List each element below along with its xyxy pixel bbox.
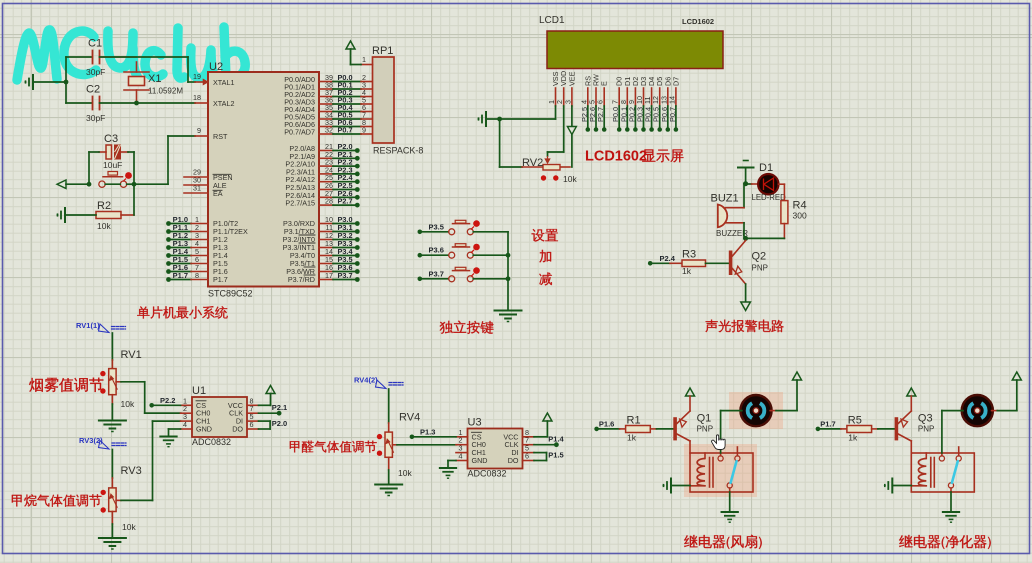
label 减 <box>539 272 552 285</box>
mouse cursor <box>712 435 726 450</box>
svg-text:4: 4 <box>459 452 463 461</box>
svg-text:BUZ1: BUZ1 <box>711 193 739 205</box>
label methane adjust <box>12 495 22 507</box>
resistor R3 1k <box>682 260 706 267</box>
wire <box>99 151 106 153</box>
label 设置 <box>532 229 545 242</box>
node button bus junction 1 <box>506 253 511 258</box>
svg-text:P1.3: P1.3 <box>420 427 435 436</box>
wire <box>783 224 785 239</box>
svg-text:Q1: Q1 <box>697 413 712 425</box>
ground <box>99 537 126 539</box>
ground <box>375 484 402 486</box>
power VCC arrow <box>907 388 916 396</box>
transistor Q2 PNP <box>729 251 733 276</box>
svg-text:14: 14 <box>667 96 676 104</box>
power VCC arrow <box>793 372 802 380</box>
svg-text:RV2: RV2 <box>522 157 543 169</box>
ground <box>485 112 487 126</box>
svg-text:6: 6 <box>250 420 254 429</box>
svg-text:RV1(1): RV1(1) <box>76 321 100 330</box>
relay contact common <box>939 456 944 461</box>
wire <box>729 492 731 511</box>
svg-text:17: 17 <box>325 271 333 280</box>
pin 19 XTAL1 <box>195 81 208 83</box>
wire <box>111 333 113 360</box>
ground <box>670 479 672 493</box>
svg-text:RV1: RV1 <box>121 349 142 361</box>
wire DI DO tie <box>259 420 271 422</box>
relay contact NO <box>735 456 740 461</box>
pin 18 XTAL2 <box>195 102 208 104</box>
node P2.5 terminal <box>586 127 591 132</box>
node P0.2 terminal <box>633 127 638 132</box>
resistor R5 1k <box>820 428 841 430</box>
svg-text:19: 19 <box>193 72 201 81</box>
transistor Q1 PNP <box>673 417 677 440</box>
pin 37 P0.2 wire to RP1 <box>319 96 333 98</box>
svg-text:10k: 10k <box>97 221 111 231</box>
wire <box>473 231 508 233</box>
wire <box>499 119 501 167</box>
label formaldehyde adjust <box>290 441 299 452</box>
svg-text:P2.2: P2.2 <box>160 396 175 405</box>
node P1.2 terminal <box>166 237 171 242</box>
pin 32 P0.7 wire to RP1 <box>319 133 333 135</box>
motor fan 继电器(风扇) <box>740 395 771 426</box>
RV4 red dot 2 <box>377 451 382 456</box>
pin 38 P0.1 wire to RP1 <box>319 88 333 90</box>
wire <box>351 64 362 66</box>
svg-text:C1: C1 <box>88 38 102 50</box>
wire <box>65 82 67 103</box>
node P2.0 terminal <box>319 150 333 152</box>
svg-text:10k: 10k <box>121 399 135 409</box>
svg-text:LCD1602: LCD1602 <box>585 149 647 165</box>
node P0.1 terminal <box>625 127 630 132</box>
svg-text:1k: 1k <box>627 433 637 443</box>
svg-text:GND: GND <box>472 456 488 465</box>
relay lever <box>952 461 958 483</box>
wire <box>116 499 121 501</box>
svg-text:11.0592M: 11.0592M <box>148 87 183 96</box>
wire <box>111 395 113 404</box>
node P1.6 terminal <box>166 269 171 274</box>
ground <box>495 310 522 312</box>
node P1.5 terminal <box>166 261 171 266</box>
potentiometer RV4 10k <box>385 432 392 457</box>
potentiometer RV3 10k <box>109 488 116 512</box>
node P3.3 terminal <box>319 247 333 249</box>
pin 36 P0.3 wire to RP1 <box>319 103 333 105</box>
node P0.6 terminal <box>666 127 671 132</box>
pin 9 RST <box>195 135 208 137</box>
svg-text:P1.7: P1.7 <box>820 419 835 428</box>
label 独立按键 <box>440 321 453 334</box>
node P0.3 terminal <box>641 127 646 132</box>
svg-text:RV4(2): RV4(2) <box>354 376 378 385</box>
svg-text:RST: RST <box>213 132 228 141</box>
svg-text:P1.7: P1.7 <box>173 271 188 280</box>
svg-text:P2.7/A15: P2.7/A15 <box>285 199 315 208</box>
capacitor C3 10uF <box>106 145 112 159</box>
svg-text:10k: 10k <box>563 174 577 184</box>
LCD1 LCD1602 display <box>547 31 723 69</box>
wire motor right <box>992 410 998 412</box>
svg-text:R3: R3 <box>682 249 696 261</box>
pin 1 RP1 <box>361 64 373 66</box>
RV2 red dot 2 <box>553 175 558 180</box>
node P3.5 terminal <box>418 230 423 235</box>
svg-text:STC89C52: STC89C52 <box>208 289 253 299</box>
wire <box>116 381 121 383</box>
svg-text:VEE: VEE <box>567 71 576 86</box>
svg-text:U1: U1 <box>192 385 206 397</box>
pin 34 P0.5 wire to RP1 <box>319 118 333 120</box>
wire <box>726 222 745 224</box>
svg-text:9: 9 <box>362 126 366 135</box>
svg-text:RV4: RV4 <box>399 412 420 424</box>
power bar symbol <box>744 160 749 162</box>
wire <box>105 183 120 185</box>
svg-text:32: 32 <box>325 126 333 135</box>
pin 33 P0.6 wire to RP1 <box>319 126 333 128</box>
label alarm title <box>705 320 717 333</box>
svg-text:DO: DO <box>508 456 519 465</box>
RV2 red dot 1 <box>541 175 546 180</box>
ground <box>943 511 959 513</box>
resistor R2 10k <box>96 212 121 219</box>
svg-text:9: 9 <box>197 126 201 135</box>
svg-text:30pF: 30pF <box>86 67 105 77</box>
wire <box>33 81 66 83</box>
wire <box>111 450 113 479</box>
wire coil to ground <box>892 485 911 487</box>
svg-text:PNP: PNP <box>697 425 713 434</box>
svg-text:ADC0832: ADC0832 <box>468 469 507 479</box>
svg-text:D7: D7 <box>671 77 680 86</box>
svg-text:LCD1: LCD1 <box>539 15 565 26</box>
wire <box>392 444 397 446</box>
ground <box>891 479 893 493</box>
svg-text:X1: X1 <box>148 73 161 85</box>
svg-text:C2: C2 <box>86 84 100 96</box>
ADC U3 ADC0832 <box>468 429 523 469</box>
node P3.7 terminal <box>418 277 423 282</box>
wire VCC <box>534 436 547 438</box>
push button P3.6 <box>422 254 449 256</box>
svg-text:PNP: PNP <box>918 425 934 434</box>
resistor R4 300 <box>781 201 788 224</box>
node P3.0 terminal <box>319 223 333 225</box>
wire <box>388 457 390 470</box>
node P1.4 terminal <box>554 442 559 447</box>
wire button bus <box>507 232 509 309</box>
RV3 red dot 2 <box>101 507 106 512</box>
svg-text:RESPACK-8: RESPACK-8 <box>373 146 423 156</box>
transistor Q3 PNP <box>895 417 899 440</box>
node P3.6 terminal <box>319 271 333 273</box>
wire <box>779 183 785 185</box>
wire <box>100 102 196 104</box>
resistor pack RP1 RESPACK-8 <box>373 57 395 143</box>
wire motor right <box>770 410 776 412</box>
ground <box>440 467 456 469</box>
logo MCUclub <box>17 27 245 80</box>
capacitor C1 <box>92 51 94 64</box>
power VCC arrow <box>1012 372 1021 380</box>
node RV2 branch junction <box>497 117 502 122</box>
svg-text:RP1: RP1 <box>372 45 393 57</box>
wire <box>473 278 508 280</box>
node P1.3 terminal <box>166 245 171 250</box>
node P3.5 terminal <box>319 263 333 265</box>
svg-text:4: 4 <box>183 420 187 429</box>
svg-text:P0.7: P0.7 <box>668 107 677 122</box>
node reset button left junction <box>87 182 92 187</box>
RV3 red dot 1 <box>101 490 106 495</box>
label 继电器(风扇) <box>684 535 697 547</box>
potentiometer RV2 10k <box>543 165 560 171</box>
ground <box>64 208 66 222</box>
node P1.6 terminal <box>594 427 599 432</box>
ground <box>32 75 34 89</box>
svg-text:PNP: PNP <box>752 264 768 273</box>
svg-text:R1: R1 <box>627 415 641 427</box>
label smoke adjust <box>29 378 43 392</box>
RV4 red dot 1 <box>377 434 382 439</box>
node P2.6 terminal <box>319 196 333 198</box>
svg-text:P1.6: P1.6 <box>599 419 614 428</box>
svg-text:28: 28 <box>325 197 333 206</box>
svg-text:P2.7: P2.7 <box>596 107 605 122</box>
wire <box>65 57 67 82</box>
svg-text:P2.4: P2.4 <box>660 254 676 263</box>
svg-text:10uF: 10uF <box>103 160 122 170</box>
wire <box>65 214 96 216</box>
node P0.0 terminal <box>617 127 622 132</box>
label 继电器(净化器) <box>899 535 912 547</box>
wire <box>100 56 189 58</box>
svg-text:P0.7/AD7: P0.7/AD7 <box>284 128 315 137</box>
wire <box>121 151 129 153</box>
svg-text:6: 6 <box>596 100 605 104</box>
relay contact NO <box>956 456 961 461</box>
svg-text:U3: U3 <box>468 417 482 429</box>
capacitor C2 <box>92 97 94 110</box>
power VCC arrow <box>543 413 552 421</box>
wire <box>121 214 134 216</box>
LED D1 LED-RED <box>746 183 752 185</box>
svg-text:R2: R2 <box>97 200 111 212</box>
terminal arrow RST input <box>57 180 66 189</box>
terminal arrow VEE <box>567 127 576 135</box>
svg-text:18: 18 <box>193 93 201 102</box>
node P2.4 terminal <box>648 261 653 266</box>
relay contact pole <box>948 483 953 488</box>
ground <box>160 436 176 438</box>
relay contact common <box>718 456 723 461</box>
node crystal-C2 junction <box>134 101 139 106</box>
node P2.5 terminal <box>319 189 333 191</box>
svg-text:P2.0: P2.0 <box>272 419 287 428</box>
svg-text:R5: R5 <box>848 415 862 427</box>
node P2.4 terminal <box>319 181 333 183</box>
svg-text:P3.6: P3.6 <box>429 246 444 255</box>
wire VDD <box>563 106 565 152</box>
relay highlight <box>684 444 757 497</box>
button actuator red dot <box>125 172 132 179</box>
svg-text:P1.4: P1.4 <box>548 435 564 444</box>
svg-text:XTAL2: XTAL2 <box>213 99 234 108</box>
svg-text:ADC0832: ADC0832 <box>192 437 231 447</box>
svg-text:GND: GND <box>196 425 212 434</box>
wire <box>743 184 745 208</box>
pin 29 PSEN <box>184 176 208 178</box>
wire <box>388 389 390 423</box>
relay 继电器(风扇) <box>690 453 753 492</box>
node P3.4 terminal <box>319 255 333 257</box>
pin 39 P0.0 wire to RP1 <box>319 81 333 83</box>
node P2.2 terminal <box>319 165 333 167</box>
wire VEE <box>571 106 573 126</box>
node alarm bottom junction <box>743 236 748 241</box>
svg-text:XTAL1: XTAL1 <box>213 78 234 87</box>
wire motor left <box>942 410 963 412</box>
node P0.5 terminal <box>657 127 662 132</box>
svg-text:P3.7/RD: P3.7/RD <box>288 275 315 284</box>
wire <box>706 262 729 264</box>
potentiometer RV1 10k <box>109 369 116 395</box>
wire <box>950 492 952 511</box>
node reset button right junction <box>132 182 137 187</box>
svg-text:E: E <box>600 81 609 86</box>
wire <box>111 512 113 525</box>
pin 35 P0.4 wire to RP1 <box>319 111 333 113</box>
wire motor left <box>721 410 742 412</box>
relay 继电器(净化器) <box>911 453 974 492</box>
push button P3.5 <box>422 231 449 233</box>
node P1.7 terminal <box>816 427 821 432</box>
resistor R1 1k <box>599 428 620 430</box>
wire CLK <box>259 412 280 414</box>
svg-text:Q3: Q3 <box>918 413 933 425</box>
node P1.3 terminal <box>410 435 415 440</box>
wire <box>652 262 670 264</box>
wire VSS to ground <box>486 118 556 120</box>
pin 31 EA <box>184 192 208 194</box>
svg-text:P1.7: P1.7 <box>213 275 228 284</box>
wire <box>745 168 747 184</box>
relay lever <box>731 461 737 483</box>
wire <box>571 135 573 168</box>
relay contact pole <box>727 483 732 488</box>
wire <box>154 404 181 406</box>
crystal X1 11.0592M <box>124 71 149 73</box>
svg-text:P3.7: P3.7 <box>429 269 444 278</box>
wire <box>910 441 912 453</box>
node P3.6 terminal <box>418 253 423 258</box>
svg-text:P3.5: P3.5 <box>429 222 444 231</box>
wire CLK <box>534 444 556 446</box>
RV1 red dot 1 <box>100 371 105 376</box>
wire coil to ground <box>671 485 690 487</box>
node P3.7 terminal <box>319 279 333 281</box>
svg-text:8: 8 <box>195 271 199 280</box>
svg-text:10k: 10k <box>398 468 412 478</box>
svg-text:P2.1: P2.1 <box>272 403 287 412</box>
ground arrow <box>741 302 751 311</box>
wire <box>414 436 457 438</box>
node P2.7 terminal <box>602 127 607 132</box>
svg-text:DO: DO <box>232 425 243 434</box>
svg-text:RV3: RV3 <box>121 465 142 477</box>
svg-text:1k: 1k <box>682 266 692 276</box>
push button P3.7 <box>422 278 449 280</box>
label MCU minimal system <box>137 306 149 318</box>
node alarm top junction <box>743 181 748 186</box>
svg-text:LCD1602: LCD1602 <box>682 17 714 26</box>
wire <box>473 254 508 256</box>
buzzer BUZ1 <box>718 205 727 228</box>
MCU U2 STC89C52 <box>208 72 319 287</box>
power VCC arrow <box>266 386 275 394</box>
wire DI DO tie <box>534 452 547 454</box>
node P1.0 terminal <box>166 221 171 226</box>
node P0.7 terminal <box>674 127 679 132</box>
wire <box>689 441 691 453</box>
RV1 red dot 2 <box>100 388 105 393</box>
wire <box>127 183 134 185</box>
node P0.4 terminal <box>649 127 654 132</box>
svg-text:30pF: 30pF <box>86 113 105 123</box>
wire VCC <box>259 404 271 406</box>
svg-text:U2: U2 <box>209 61 223 73</box>
pin 30 ALE <box>184 184 208 186</box>
svg-text:1: 1 <box>362 55 366 64</box>
node P1.4 terminal <box>166 253 171 258</box>
label 加 <box>539 250 551 262</box>
svg-text:P1.5: P1.5 <box>548 451 563 460</box>
svg-text:6: 6 <box>525 452 529 461</box>
motor highlight <box>729 392 783 429</box>
svg-text:31: 31 <box>193 184 201 193</box>
svg-text:3: 3 <box>563 100 572 104</box>
node P3.1 terminal <box>319 231 333 233</box>
node P2.3 terminal <box>319 173 333 175</box>
node P2.2 terminal <box>149 403 154 408</box>
svg-text:C3: C3 <box>104 133 118 145</box>
svg-text:300: 300 <box>793 211 807 221</box>
svg-text:10k: 10k <box>122 522 136 532</box>
node P2.7 terminal <box>319 204 333 206</box>
node P2.1 terminal <box>319 157 333 159</box>
power VCC arrow <box>346 41 355 49</box>
svg-text:1k: 1k <box>848 433 858 443</box>
motor fan 继电器(净化器) <box>962 395 993 426</box>
ground <box>722 511 738 513</box>
wire <box>745 284 747 302</box>
node P3.2 terminal <box>319 239 333 241</box>
node P1.7 terminal <box>166 277 171 282</box>
node P2.1 terminal <box>277 411 282 416</box>
push button RESET <box>99 181 105 187</box>
wire GND pin <box>448 460 456 462</box>
node XTAL1 net junction <box>64 80 69 85</box>
svg-text:D1: D1 <box>759 162 773 174</box>
node P2.6 terminal <box>594 127 599 132</box>
ground <box>99 420 126 422</box>
